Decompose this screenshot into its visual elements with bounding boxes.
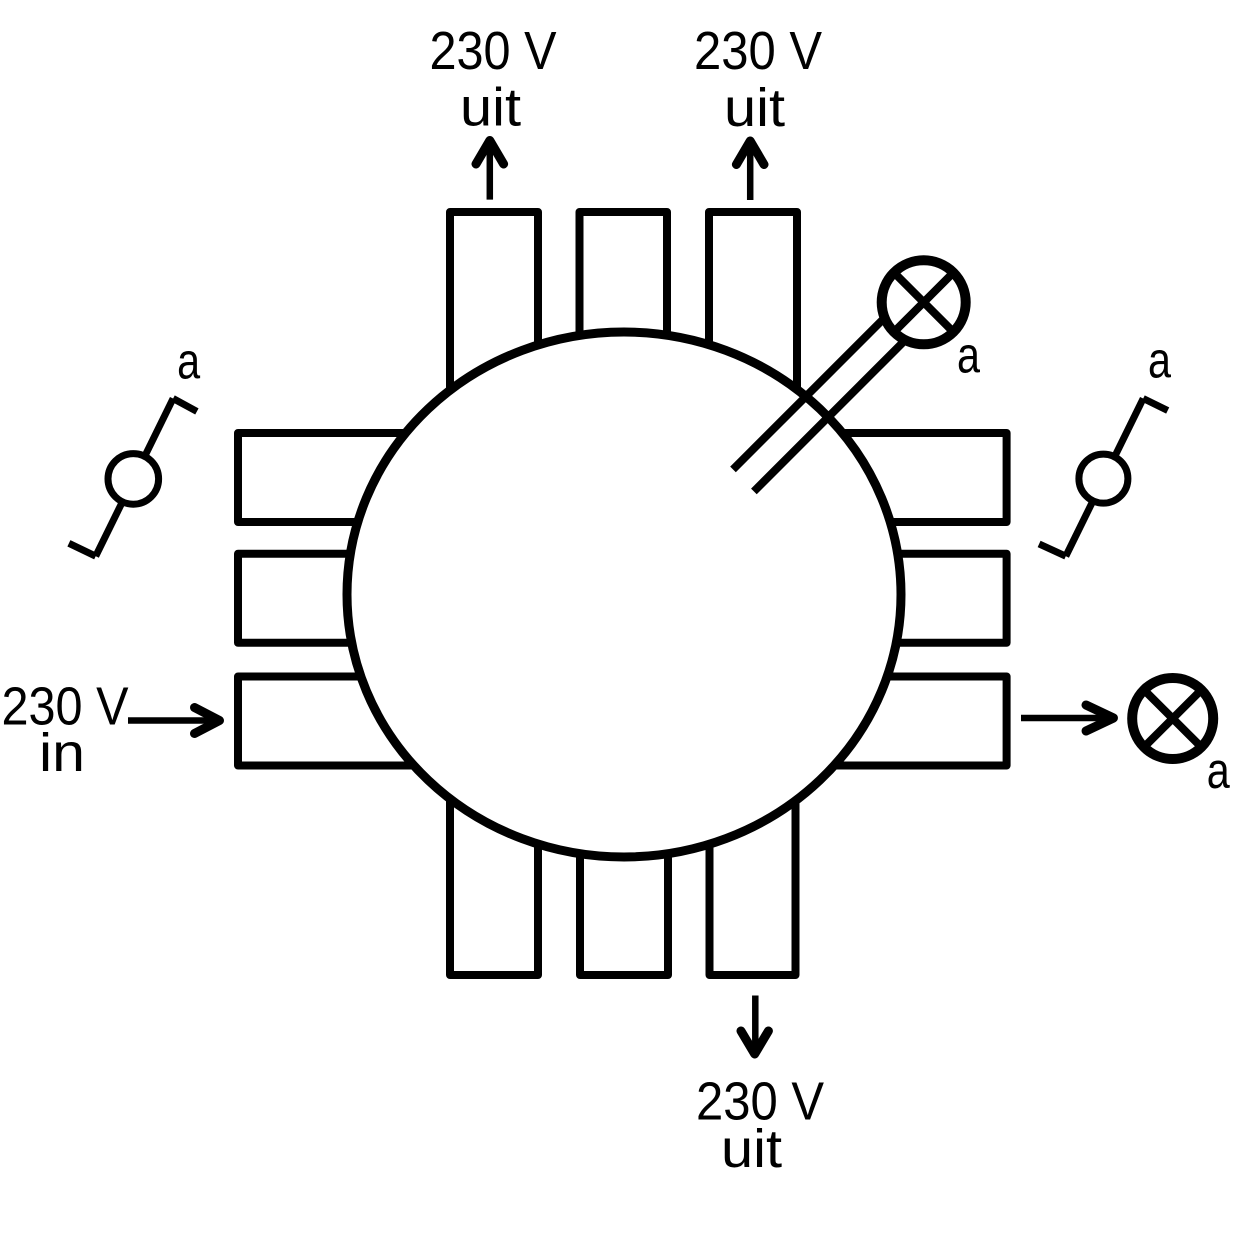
svg-text:230 V: 230 V bbox=[430, 21, 557, 81]
svg-text:a: a bbox=[177, 333, 201, 390]
svg-text:uit: uit bbox=[721, 1119, 782, 1179]
svg-text:uit: uit bbox=[724, 78, 785, 138]
svg-text:in: in bbox=[39, 723, 85, 783]
svg-text:a: a bbox=[1207, 742, 1231, 799]
svg-text:a: a bbox=[1148, 332, 1172, 389]
svg-text:a: a bbox=[957, 327, 981, 384]
svg-text:230 V: 230 V bbox=[694, 21, 822, 81]
svg-text:uit: uit bbox=[460, 78, 521, 138]
